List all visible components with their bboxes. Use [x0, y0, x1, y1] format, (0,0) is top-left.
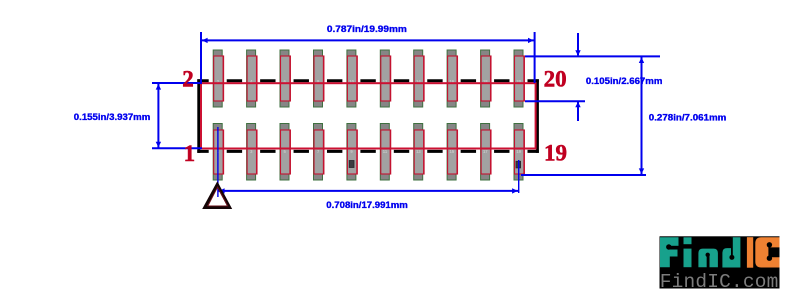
svg-text:0.708in/17.991mm: 0.708in/17.991mm	[326, 200, 408, 211]
pin 14 pad (top row, column 7)	[414, 50, 424, 107]
pin 5 pad (bottom row, column 3)	[280, 124, 290, 181]
pin 19 pad (bottom row, column 10)	[514, 124, 524, 181]
pin 11 pad (bottom row, column 6)	[380, 124, 390, 181]
svg-text:0.278in/7.061mm: 0.278in/7.061mm	[649, 113, 727, 124]
pin 8 pad (top row, column 4)	[314, 50, 324, 107]
svg-text:11: 11	[383, 149, 388, 154]
pin 9 pad (bottom row, column 5)	[347, 124, 357, 181]
connector body outline (red courtyard layer)	[201, 83, 536, 148]
bottom dimension 0.708in/17.991mm (pin 1 to pin 19)	[218, 127, 519, 211]
connector body outline (black assembly layer)	[197, 79, 539, 153]
right small dimension 0.105in/2.667mm (pad length)	[525, 33, 662, 121]
pin 18 pad (top row, column 9)	[481, 50, 491, 107]
right large dimension 0.278in/7.061mm (pad row span)	[521, 56, 726, 175]
pin 1 indicator triangle	[205, 185, 230, 208]
hole marker on pin 9 pad	[349, 161, 354, 168]
top dimension 0.787in/19.99mm (body width)	[201, 24, 535, 83]
pin 7 pad (bottom row, column 4)	[314, 124, 324, 181]
pin 12 pad (top row, column 6)	[380, 50, 390, 107]
svg-text:13: 13	[416, 149, 421, 154]
svg-text:1: 1	[184, 141, 196, 166]
svg-text:0.155in/3.937mm: 0.155in/3.937mm	[74, 112, 151, 123]
svg-text:FindIC.com: FindIC.com	[660, 271, 779, 293]
FindIC logo	[660, 236, 780, 292]
left dimension 0.155in/3.937mm (row spacing)	[74, 83, 202, 148]
pin 3 pad (bottom row, column 2)	[247, 124, 257, 181]
svg-text:15: 15	[449, 149, 454, 154]
pin 16 pad (top row, column 8)	[447, 50, 457, 107]
pin 15 pad (bottom row, column 8)	[447, 124, 457, 181]
pin 20 pad (top row, column 10)	[514, 50, 524, 107]
pin 17 pad (bottom row, column 9)	[481, 124, 491, 181]
hole marker on pin 19 pad	[516, 161, 521, 168]
pin 10 pad (top row, column 5)	[347, 50, 357, 107]
svg-text:20: 20	[544, 66, 567, 91]
svg-text:0.787in/19.99mm: 0.787in/19.99mm	[327, 24, 407, 35]
pin 6 pad (top row, column 3)	[280, 50, 290, 107]
svg-text:0.105in/2.667mm: 0.105in/2.667mm	[586, 76, 663, 87]
svg-text:2: 2	[182, 66, 194, 91]
pin 4 pad (top row, column 2)	[247, 50, 257, 107]
pin 1 pad (bottom row, column 1)	[213, 124, 223, 181]
pin 13 pad (bottom row, column 7)	[414, 124, 424, 181]
svg-text:19: 19	[544, 141, 567, 166]
pin 2 pad (top row, column 1)	[213, 50, 223, 107]
svg-text:17: 17	[483, 149, 488, 154]
svg-text:19: 19	[516, 149, 521, 154]
